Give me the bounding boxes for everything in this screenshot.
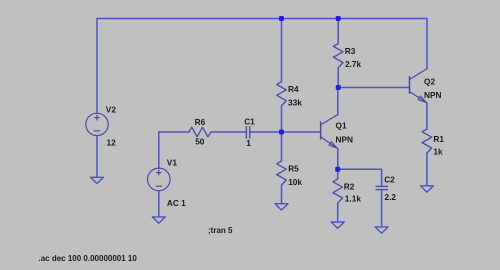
svg-text:NPN: NPN (336, 135, 354, 145)
svg-text:C2: C2 (384, 175, 395, 185)
svg-text:AC 1: AC 1 (167, 198, 186, 208)
svg-text:1.1k: 1.1k (345, 194, 362, 204)
svg-text:10k: 10k (288, 177, 302, 187)
svg-text:1: 1 (246, 138, 251, 148)
svg-text:Q2: Q2 (424, 76, 435, 86)
svg-text:2.2: 2.2 (385, 192, 397, 202)
svg-text:2.7k: 2.7k (345, 59, 362, 69)
svg-text:V2: V2 (106, 105, 117, 115)
svg-text:NPN: NPN (424, 90, 442, 100)
svg-text:Q1: Q1 (336, 121, 347, 131)
svg-text:R4: R4 (288, 84, 299, 94)
svg-text:50: 50 (195, 137, 205, 147)
svg-text:R2: R2 (344, 182, 355, 192)
svg-text:R6: R6 (195, 117, 206, 127)
svg-text:R1: R1 (433, 134, 444, 144)
svg-text:.ac dec 100 0.00000001 10: .ac dec 100 0.00000001 10 (39, 254, 138, 263)
svg-text:;tran 5: ;tran 5 (208, 226, 233, 235)
svg-text:12: 12 (107, 137, 117, 147)
svg-text:R3: R3 (345, 46, 356, 56)
svg-text:1k: 1k (433, 147, 443, 157)
svg-text:V1: V1 (167, 158, 178, 168)
svg-text:33k: 33k (288, 97, 302, 107)
svg-text:C1: C1 (244, 117, 255, 127)
svg-text:R5: R5 (288, 163, 299, 173)
